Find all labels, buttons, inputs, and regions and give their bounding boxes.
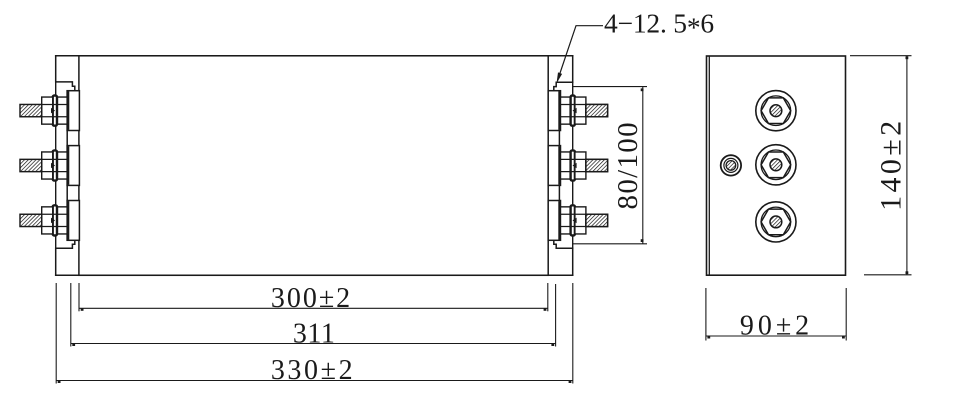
side view hole 3: [756, 202, 796, 242]
90±2 end dots: [707, 336, 710, 339]
front view main body outline: [56, 56, 573, 275]
300±2 left extension line: [78, 283, 80, 311]
terminal R2: [548, 146, 607, 186]
terminal L1: [20, 91, 79, 131]
svg-text:330±2: 330±2: [271, 355, 355, 386]
side view ground stud: [721, 155, 741, 175]
right flange plate front line: [572, 83, 574, 249]
80/100 bottom extension line: [573, 243, 648, 245]
bottom edge across flanges: [56, 274, 573, 276]
left flange plate front line: [55, 83, 57, 249]
90±2 dimension line: [706, 335, 846, 337]
dimension 300±2: [79, 283, 548, 314]
right inter-terminal profile lines: [558, 131, 560, 146]
left flange edge upper: [56, 56, 75, 91]
140±2 bottom extension line: [864, 274, 912, 276]
left inter-terminal profile lines: [66, 131, 68, 146]
330±2 end dots: [58, 380, 61, 383]
terminal R1: [548, 91, 607, 131]
leader 4-12.5*6: [557, 8, 714, 84]
90±2 right extension line: [845, 288, 847, 341]
330±2 left extension line: [55, 283, 57, 384]
side view hole 1: [756, 91, 796, 131]
80/100 end dots: [641, 88, 644, 91]
140±2 dimension line: [906, 56, 908, 275]
311 dimension line: [71, 343, 556, 345]
330±2 dimension line: [56, 380, 573, 382]
dimension 90±2: [706, 288, 846, 342]
90±2 left extension line: [705, 288, 707, 341]
80/100 top extension line: [573, 86, 648, 88]
140±2 top extension line: [850, 55, 912, 57]
terminal L3: [20, 201, 79, 241]
311 left extension line: [70, 283, 72, 347]
330±2 right extension line: [572, 283, 574, 384]
dimension 311: [71, 283, 556, 349]
300±2 right extension line: [547, 283, 549, 311]
svg-text:80/100: 80/100: [612, 121, 644, 209]
right flange edge upper: [554, 56, 573, 91]
svg-text:4−12. 5*6: 4−12. 5*6: [604, 8, 714, 43]
right stud hatch overlays: [586, 104, 608, 226]
side view body outline: [707, 56, 846, 275]
svg-text:140±2: 140±2: [875, 117, 908, 210]
right flange edge lower: [554, 240, 573, 275]
311 right extension line: [555, 284, 557, 347]
leader arrowhead: [557, 72, 563, 83]
svg-text:311: 311: [293, 318, 335, 349]
left flange edge lower: [56, 240, 75, 275]
top edge across flanges: [56, 55, 573, 57]
svg-text:90±2: 90±2: [740, 311, 813, 342]
300±2 end dots: [81, 308, 84, 311]
80/100 dimension line: [642, 87, 644, 244]
140±2 end dots: [906, 56, 909, 59]
svg-text:300±2: 300±2: [271, 283, 352, 314]
terminal L2: [20, 146, 79, 186]
dimension 140±2: [850, 56, 912, 275]
300±2 dimension line: [79, 307, 548, 309]
terminal R3: [548, 201, 607, 241]
311 end dots: [72, 343, 75, 346]
leader line: [558, 26, 604, 81]
dimension 80/100: [573, 87, 648, 244]
dimension 330±2: [56, 283, 573, 386]
side view hole 2: [756, 145, 796, 185]
